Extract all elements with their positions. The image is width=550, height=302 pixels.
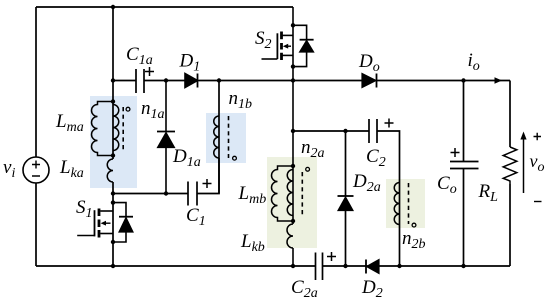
svg-text:D1a: D1a — [172, 146, 201, 170]
wire n_1b vertical — [218, 81, 220, 194]
polarity dot n_2a — [306, 167, 310, 171]
diode D_2 — [366, 260, 379, 274]
polarity dot n_1a — [126, 107, 130, 111]
inductor L_ka (bumps on node A line) — [107, 159, 113, 182]
voltage source v_i — [23, 157, 49, 183]
svg-text:D2a: D2a — [352, 171, 381, 195]
S_1 drain lead — [100, 210, 113, 212]
S_2 gate lead — [262, 58, 278, 60]
S_1 body arrow — [104, 222, 111, 224]
resistor R_L — [503, 147, 517, 184]
minus v_o — [534, 201, 542, 203]
inductor L_kb (bumps on x=293 line) — [287, 224, 293, 248]
current arrow i_o — [495, 77, 503, 84]
svg-text:Do: Do — [358, 51, 380, 75]
wire C_2 rail y=131 — [293, 130, 369, 132]
polarity dot n_2b — [412, 223, 416, 227]
svg-text:D2: D2 — [361, 277, 383, 301]
highlight n_1b winding — [206, 113, 246, 163]
svg-text:C1a: C1a — [126, 44, 153, 68]
svg-text:C2a: C2a — [291, 277, 318, 301]
wire D_1 to D_o — [199, 80, 363, 82]
wire top rail — [36, 6, 293, 8]
svg-text:io: io — [468, 50, 480, 74]
S_2 source lead — [280, 54, 293, 56]
wire left rail lower — [35, 183, 37, 266]
plus v_o — [534, 133, 542, 140]
diode D_1 — [185, 74, 198, 88]
wire C_2 to n_2b corner — [377, 131, 400, 266]
wire C_1a to D_1 — [144, 80, 185, 82]
wire S_1 drain node y=193.5 — [113, 193, 188, 195]
svg-text:vo: vo — [530, 151, 545, 175]
svg-text:n1a: n1a — [141, 98, 165, 122]
svg-text:S2: S2 — [255, 28, 272, 52]
winding n_1b (bumps left of x=219 line) — [214, 116, 219, 158]
core dashed line T1 — [122, 107, 124, 151]
wire x=293 below L_kb — [292, 248, 294, 266]
core dashed line n_2b — [408, 183, 410, 224]
winding n_2b (bumps left of x=399.5 line) — [394, 183, 399, 225]
S_2 body diode branch — [293, 25, 307, 66]
S_1 channel segments — [98, 209, 101, 238]
wire bottom rail right of C_2a — [323, 265, 511, 267]
S_1 body diode branch — [113, 203, 126, 242]
S_1 gate lead — [77, 235, 94, 237]
wire x=293 upper through windings — [292, 7, 294, 224]
S_1 source lead — [100, 233, 113, 235]
MOSFET S_2 — [262, 25, 314, 66]
core dashed line T2 — [301, 172, 303, 215]
S_1 gate bar — [94, 210, 96, 236]
svg-text:n2a: n2a — [301, 137, 325, 161]
svg-text:n1b: n1b — [229, 88, 253, 112]
voltage arrow v_o — [523, 138, 525, 193]
wire main rail y=80.5 left segment — [113, 80, 136, 82]
diode D_1a — [157, 81, 175, 194]
capacitor C_1 — [188, 182, 197, 206]
S_2 channel segments — [280, 32, 283, 61]
plus C_o — [451, 148, 460, 157]
S_2 gate bar — [276, 33, 278, 59]
plus C_1 — [203, 179, 212, 188]
wire C_1 to n_1b corner — [197, 158, 219, 194]
plus C_1a — [145, 67, 154, 76]
plus C_2 — [385, 119, 394, 128]
svg-text:Lmb: Lmb — [238, 183, 267, 207]
capacitor C_o — [450, 162, 479, 169]
transformer winding n_1a (on node A line, bumps right) — [113, 105, 119, 151]
highlight L_mb n_2a winding — [267, 157, 317, 248]
svg-text:n2b: n2b — [402, 228, 426, 252]
wire R_L vertical — [509, 81, 511, 267]
capacitor C_1a — [136, 69, 144, 93]
svg-text:vi: vi — [3, 157, 15, 181]
capacitor C_2a — [316, 253, 323, 281]
highlight n_2b winding — [386, 179, 425, 228]
wire left rail upper — [35, 7, 37, 157]
inductor L_ma (parallel branch, bumps left) — [92, 102, 114, 156]
diode D_o — [362, 74, 377, 88]
svg-text:RL: RL — [478, 181, 499, 205]
plus C_2a — [327, 252, 336, 261]
polarity dot n_1b — [233, 156, 237, 160]
svg-text:Lkb: Lkb — [240, 231, 265, 255]
S_2 body arrow — [286, 45, 291, 47]
svg-text:Lka: Lka — [59, 157, 84, 181]
svg-text:C2: C2 — [366, 146, 386, 170]
wire D_o to R_L corner — [377, 80, 511, 82]
svg-text:Co: Co — [437, 173, 457, 197]
svg-text:S1: S1 — [76, 197, 93, 221]
wire D_2a vertical — [345, 131, 347, 266]
svg-text:C1: C1 — [186, 205, 206, 229]
highlight L_ma n_1a winding — [90, 96, 137, 188]
capacitor C_2 — [369, 119, 377, 143]
diode D_2a — [338, 196, 354, 211]
svg-text:D1: D1 — [179, 51, 201, 75]
inductor L_mb (parallel branch, bumps left) — [272, 166, 294, 221]
wire C_o vertical — [463, 81, 465, 267]
wire node A vertical x=113 upper — [112, 7, 114, 159]
core dashed line n_1b — [228, 116, 230, 158]
MOSFET S_1 — [77, 203, 133, 242]
svg-text:Lma: Lma — [55, 111, 84, 135]
S_2 drain lead — [280, 34, 293, 36]
wire node A vertical x=113 lower — [112, 182, 114, 266]
wire bottom rail left of C_2a — [36, 265, 316, 267]
transformer winding n_2a (bumps left on x=293 line) — [287, 170, 293, 216]
